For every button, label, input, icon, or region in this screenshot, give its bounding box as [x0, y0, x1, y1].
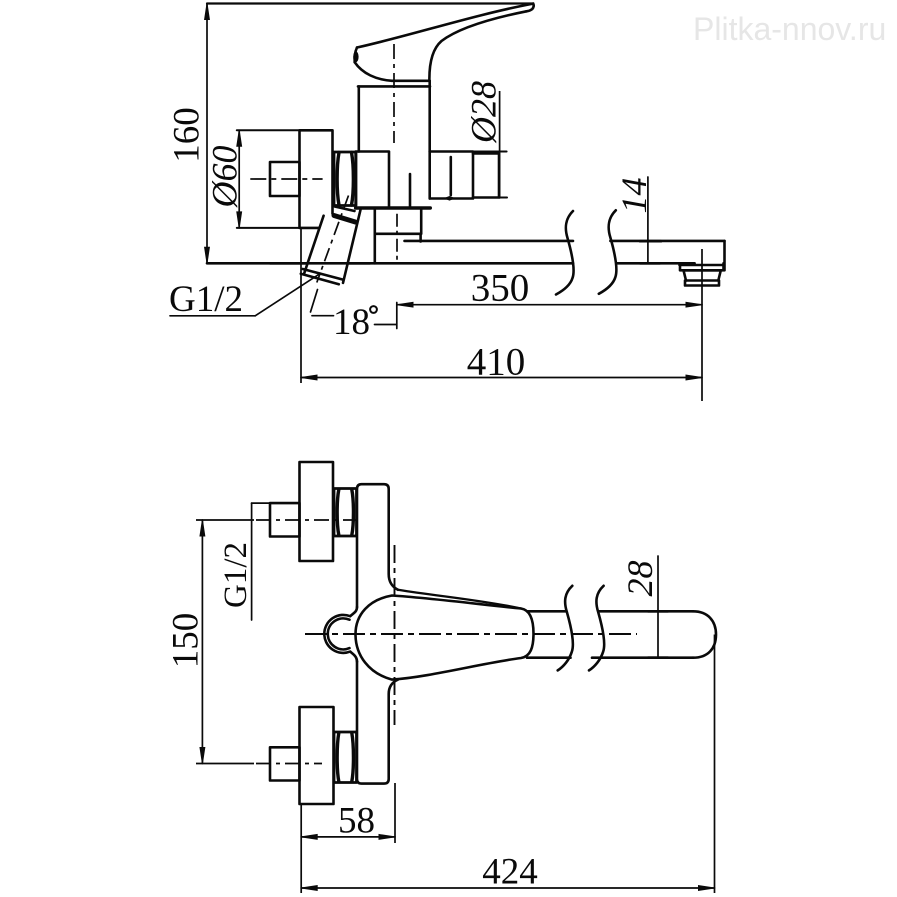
nozzle centerline / extension for 350-410 dims [701, 249, 703, 401]
lower nipple G1/2 [270, 747, 300, 780]
handle cap silhouette line (above grip) [398, 590, 521, 609]
lower hex nut [334, 732, 357, 783]
handle skirt bottom [355, 62, 392, 81]
lower wall flange [300, 707, 334, 804]
spout inlet neck [375, 208, 421, 234]
wall flange (escutcheon) side view [300, 130, 333, 228]
handle knob tip (bottom view) [324, 615, 350, 653]
break squiggle S1 (bottom view) [558, 586, 573, 671]
dimension 28 (spout width) [648, 556, 668, 658]
flange extension lines for dim D60 [237, 129, 300, 131]
break squiggle S1 (top view) [556, 211, 574, 295]
handle lever [357, 4, 533, 48]
extension from spout inlet centerline [396, 214, 398, 264]
body-handle transition S-jogs to knob [350, 607, 357, 662]
shower outlet tube (18 deg) [304, 210, 361, 283]
svg-text:Plitka-nnov.ru: Plitka-nnov.ru [693, 11, 886, 47]
spout right end [723, 241, 726, 270]
svg-text:G1/2: G1/2 [218, 542, 254, 608]
extension from spout end for 424 [714, 635, 716, 894]
dimension 160 (vertical, left) [205, 4, 210, 264]
dimension 150 [200, 520, 205, 764]
break squiggle S2 (top view) [599, 210, 617, 293]
spout rounded end [693, 611, 716, 657]
svg-text:160: 160 [167, 107, 208, 163]
cartridge housing body [359, 81, 430, 199]
dimension 58 [301, 835, 395, 840]
spout tube (bottom view) [527, 611, 693, 657]
valve body (center section) [356, 152, 389, 209]
handle horizontal centerline [305, 633, 637, 635]
extension line from wall (x301) [300, 228, 302, 383]
dimension 18 deg [311, 290, 397, 329]
right collar (D28 connection) [430, 152, 473, 199]
dimension line D28 [499, 91, 501, 199]
boss edge line inside body [409, 174, 412, 207]
extension line top (handle top level) [207, 2, 533, 4]
shower tube axis centerline [317, 196, 349, 283]
svg-text:G1/2: G1/2 [169, 279, 243, 320]
collar end cap [473, 154, 499, 198]
G1/2 label (bottom view) [252, 503, 270, 620]
svg-text:424: 424 [482, 852, 538, 893]
body vertical centerline [394, 545, 396, 725]
break squiggle S2 (bottom view) [589, 586, 604, 671]
D28 extension lines [473, 151, 507, 153]
body centerline [393, 44, 395, 143]
dimension 424 [301, 886, 714, 891]
handle pivot dot [353, 51, 358, 62]
wall / spout bottom line [207, 262, 573, 265]
handle grip teardrop (bottom view) [356, 596, 534, 680]
svg-text:350: 350 [471, 267, 530, 310]
dimension 410 [301, 375, 702, 380]
dimension D60 (vertical) [237, 130, 242, 228]
extension from body centerline for 58 [394, 783, 396, 843]
lower nipple centerline + 150 extension [196, 763, 254, 765]
extension line from flange bottom (58/424) [300, 804, 302, 893]
svg-text:Ø28: Ø28 [464, 81, 504, 144]
svg-text:410: 410 [467, 341, 526, 384]
connection hex nut (top view) [334, 152, 356, 206]
upper hex nut [334, 489, 357, 537]
dimension 350 [397, 302, 702, 307]
dimension 14 (spout tube) [640, 177, 661, 264]
svg-text:18: 18 [333, 302, 370, 343]
body rim lines [358, 81, 430, 87]
svg-text:150: 150 [166, 613, 207, 669]
faucet body bar [357, 484, 398, 607]
wall nipple G1/2 (side view) [270, 162, 300, 196]
upper nipple centerline + 150 extension [196, 519, 254, 521]
aerator nozzle [680, 263, 724, 270]
svg-text:Ø60: Ø60 [205, 146, 245, 209]
upper nipple G1/2 [270, 503, 300, 536]
spout tube top edge [405, 240, 725, 243]
svg-text:58: 58 [338, 801, 375, 842]
svg-text:14: 14 [614, 178, 654, 214]
svg-text:28: 28 [620, 561, 660, 597]
nipple centerline [250, 178, 322, 180]
upper wall flange [300, 462, 334, 561]
